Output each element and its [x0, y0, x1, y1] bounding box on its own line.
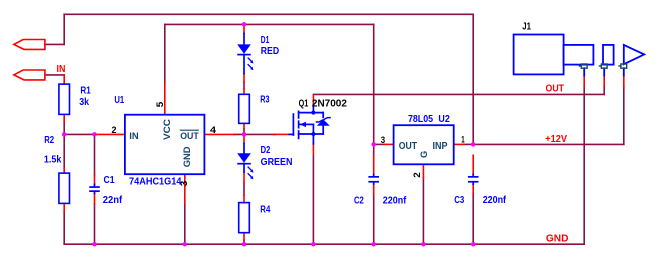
op-amp U1 body [125, 115, 204, 175]
J1 pin hooks [579, 64, 626, 68]
wire U1 pin3 lower [184, 204, 186, 244]
svg-text:+12V: +12V [545, 134, 567, 145]
wire J1 pinB drop [603, 86, 605, 94]
wire U1 VCC riser [164, 24, 166, 83]
svg-text:4: 4 [210, 125, 217, 135]
pin stub R4 top [243, 195, 245, 202]
pin name OUT U1 overline [180, 129, 199, 131]
svg-text:J1: J1 [522, 21, 531, 32]
svg-text:OUT: OUT [180, 131, 199, 142]
pin stub C2 bottom [373, 184, 375, 194]
svg-text:74AHC1G14: 74AHC1G14 [129, 177, 182, 188]
connector arrow X2 IN [14, 70, 45, 80]
svg-text:U2: U2 [438, 114, 450, 125]
capacitor C2 [373, 174, 375, 184]
wire C2 upper [373, 144, 375, 155]
svg-text:3: 3 [381, 135, 385, 145]
pin stub U2 pin1 [454, 143, 464, 145]
wire U2 pin1 net [464, 143, 474, 145]
wire arrow X1 riser [63, 14, 65, 44]
svg-text:5: 5 [155, 102, 165, 108]
wire U2 pin3 net [374, 143, 385, 145]
resistor R3 [239, 94, 250, 123]
wire C3 lower [472, 194, 474, 244]
svg-text:78L05: 78L05 [408, 114, 433, 125]
pin stub D1 top [243, 24, 245, 33]
pin stub C3 top [472, 155, 474, 174]
svg-text:OUT: OUT [546, 83, 565, 94]
svg-text:G: G [419, 151, 430, 158]
pin stub U1 pin3 [184, 174, 186, 203]
pin stub D1 bottom [243, 74, 245, 83]
wire R3 bottom to node [243, 129, 245, 135]
wire rail A drop [472, 14, 474, 144]
pin stub R1 bottom [63, 114, 65, 122]
resistor R2 [59, 173, 70, 203]
pin stub R2 top [63, 169, 65, 174]
svg-text:OUT: OUT [399, 141, 418, 152]
pin stub U2 pin2 [422, 164, 424, 177]
pin stub C1 top [94, 175, 96, 185]
pin stub D2 bottom [243, 172, 245, 183]
svg-text:U1: U1 [114, 95, 124, 106]
svg-text:3k: 3k [79, 97, 89, 108]
svg-text:22nf: 22nf [103, 195, 123, 206]
pin stub D2 top [243, 134, 245, 143]
svg-text:VCC: VCC [162, 119, 173, 140]
wire J1 pinA drop [583, 86, 585, 244]
wire C1 upper [94, 134, 96, 174]
LED D1 [237, 33, 253, 73]
svg-text:IN: IN [129, 131, 138, 142]
svg-text:3: 3 [179, 181, 189, 187]
wire R4 bottom [243, 240, 245, 244]
resistor R4 [239, 203, 250, 233]
wire R1 bottom to node [63, 122, 65, 134]
wire C1 lower [94, 204, 96, 244]
pin stub C1 bottom [94, 193, 96, 204]
svg-text:R2: R2 [44, 135, 54, 146]
wire rail B 5V [165, 23, 374, 25]
svg-text:GREEN: GREEN [261, 157, 293, 168]
pin stub R4 bottom [243, 233, 245, 241]
wire arrow X1 stub [45, 43, 64, 45]
svg-text:D2: D2 [261, 145, 271, 156]
resistor R1 [59, 84, 70, 114]
svg-text:C3: C3 [454, 195, 464, 206]
svg-text:R4: R4 [260, 205, 270, 216]
connector J1 [514, 35, 645, 76]
wire C2 lower [373, 194, 375, 244]
pin stub U1 pin5 [164, 83, 166, 115]
wire +12V net [473, 143, 624, 145]
pin stub U1 pin2 [95, 133, 125, 135]
wire D1 R3 mid [243, 82, 245, 88]
wire arrow X2 stub [45, 74, 64, 76]
wire D2 R4 mid [243, 183, 245, 196]
svg-text:2N7002: 2N7002 [312, 99, 347, 110]
capacitor C3 [472, 174, 474, 184]
svg-text:220nf: 220nf [383, 195, 407, 206]
pin stub R1 top [63, 75, 65, 84]
pin stub U2 pin3 [384, 143, 393, 145]
svg-text:GND: GND [182, 146, 193, 167]
svg-text:1.5k: 1.5k [44, 155, 62, 166]
pin stub R2 bottom [63, 203, 65, 211]
connector arrow X1 [14, 40, 45, 50]
svg-text:2: 2 [112, 125, 117, 135]
wire 5V riser [373, 24, 375, 144]
svg-text:C2: C2 [354, 195, 364, 206]
wire GND rail [64, 243, 584, 245]
svg-text:220nf: 220nf [483, 195, 507, 206]
svg-text:1: 1 [461, 134, 464, 144]
wire node row [64, 133, 94, 135]
pin stub R3 top [243, 89, 245, 95]
svg-text:GND: GND [546, 234, 569, 245]
wire J1 pinC drop [623, 86, 625, 144]
svg-text:D1: D1 [261, 35, 270, 46]
svg-text:RED: RED [261, 46, 279, 57]
svg-text:2: 2 [412, 172, 422, 178]
pin stub J1 pinB [603, 76, 605, 87]
wire rail A top (+12V feed) [64, 13, 473, 15]
transistor Q1 [289, 104, 330, 143]
pin stub J1 pinC [623, 76, 625, 87]
pin stub R3 bottom [243, 123, 245, 128]
svg-text:R1: R1 [80, 85, 91, 96]
pin stub Q1 drain [312, 95, 314, 104]
LED D2 [237, 143, 253, 179]
svg-text:C1: C1 [104, 175, 115, 186]
svg-text:R3: R3 [260, 95, 270, 106]
pin stub U1 pin4 [204, 133, 234, 135]
pin stub Q1 gate [276, 133, 290, 135]
wire Q1 source to gnd [312, 155, 314, 244]
svg-text:IN: IN [57, 64, 66, 75]
svg-text:Q1: Q1 [299, 99, 309, 110]
wire pin4 net [234, 133, 275, 135]
pin stub C2 top [373, 155, 375, 174]
regulator U2 body [394, 125, 454, 164]
pin stub Q1 source [312, 144, 314, 154]
wire OUT net [313, 93, 604, 95]
capacitor C1 [94, 184, 96, 193]
pin stub C3 bottom [472, 184, 474, 194]
wire U2 pin2 lower [422, 178, 424, 245]
wire node to R2 [63, 134, 65, 168]
pin stub J1 pinA [583, 76, 585, 87]
wire R2 to gnd rail [63, 212, 65, 244]
svg-text:INP: INP [433, 141, 448, 152]
